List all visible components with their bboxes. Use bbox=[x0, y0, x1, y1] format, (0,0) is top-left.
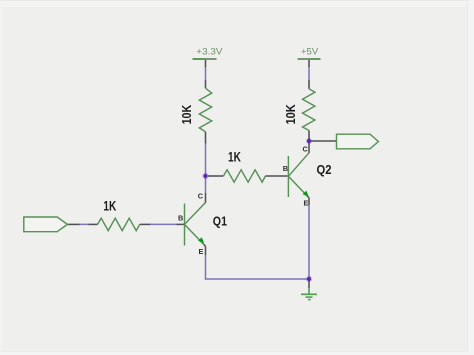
svg-text:+3.3V: +3.3V bbox=[196, 47, 223, 57]
svg-text:+5V: +5V bbox=[301, 47, 319, 57]
svg-text:E: E bbox=[199, 247, 204, 256]
svg-text:10K: 10K bbox=[179, 104, 194, 124]
svg-text:1K: 1K bbox=[228, 149, 241, 165]
svg-text:B: B bbox=[283, 164, 288, 173]
svg-text:E: E bbox=[304, 198, 309, 207]
svg-text:C: C bbox=[198, 192, 204, 201]
svg-text:1K: 1K bbox=[103, 198, 116, 214]
svg-text:10K: 10K bbox=[283, 104, 298, 125]
svg-text:B: B bbox=[178, 214, 183, 223]
svg-text:Q1: Q1 bbox=[213, 214, 227, 228]
svg-text:C: C bbox=[303, 145, 309, 154]
svg-text:Q2: Q2 bbox=[317, 163, 332, 177]
